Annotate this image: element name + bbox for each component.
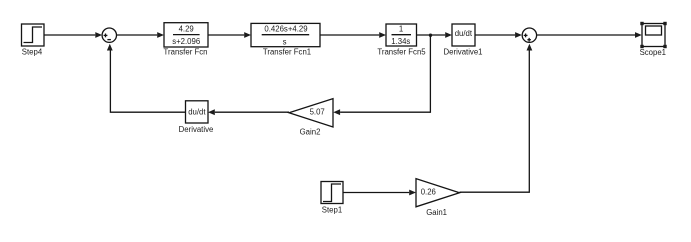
wire Sum1 to Scope1	[537, 34, 635, 36]
svg-text:Step1: Step1	[322, 205, 342, 214]
wire Step1 to Gain1	[343, 192, 409, 194]
svg-text:5.07: 5.07	[310, 107, 325, 116]
wire Gain2 to Derivative	[215, 111, 289, 113]
wire Derivative1 to Sum1	[475, 34, 515, 36]
sum block Sum	[102, 28, 116, 42]
wire Transfer Fcn to Transfer Fcn1	[208, 34, 244, 36]
svg-text:du/dt: du/dt	[455, 29, 473, 38]
gain block Gain2 (left pointing)	[289, 99, 333, 127]
wire Sum to Transfer Fcn	[117, 34, 158, 36]
svg-text:s+2.096: s+2.096	[172, 37, 200, 46]
svg-text:s: s	[283, 37, 287, 46]
wire Derivative to Sum bottom input	[110, 51, 185, 113]
svg-text:Transfer Fcn: Transfer Fcn	[164, 47, 208, 56]
junction node after Transfer Fcn5	[429, 34, 432, 37]
source block Step4	[22, 24, 45, 46]
feedback wire from junction down to Gain2	[429, 35, 431, 113]
svg-text:1: 1	[399, 25, 403, 34]
svg-text:Gain1: Gain1	[426, 208, 447, 217]
scope block Scope1 (selected)	[642, 24, 665, 47]
svg-text:0.26: 0.26	[421, 188, 436, 197]
wire Transfer Fcn5 to Derivative1	[417, 34, 446, 36]
source block Step1	[321, 182, 343, 204]
sum block Sum1	[522, 28, 536, 42]
wire Transfer Fcn1 to Transfer Fcn5	[320, 34, 379, 36]
svg-text:du/dt: du/dt	[188, 107, 206, 116]
svg-text:Step4: Step4	[22, 47, 43, 56]
wire Step4 to Sum	[44, 34, 95, 36]
derivative block Derivative	[186, 101, 209, 123]
gain block Gain1 (right pointing)	[416, 179, 460, 207]
svg-text:Derivative1: Derivative1	[444, 47, 483, 56]
svg-text:Derivative: Derivative	[179, 125, 214, 134]
svg-text:1.34s: 1.34s	[391, 37, 410, 46]
svg-text:Scope1: Scope1	[640, 48, 666, 57]
derivative block Derivative1	[452, 24, 475, 46]
transfer function block Transfer Fcn	[164, 23, 208, 47]
svg-text:Transfer Fcn5: Transfer Fcn5	[377, 47, 426, 56]
svg-text:0.426s+4.29: 0.426s+4.29	[264, 25, 307, 34]
svg-text:Transfer Fcn1: Transfer Fcn1	[263, 47, 311, 56]
svg-text:Gain2: Gain2	[300, 127, 321, 136]
svg-text:4.29: 4.29	[179, 25, 194, 34]
transfer function block Transfer Fcn5	[386, 24, 417, 46]
wire Gain1 to Sum1 bottom input	[460, 51, 530, 193]
transfer function block Transfer Fcn1	[251, 23, 320, 46]
